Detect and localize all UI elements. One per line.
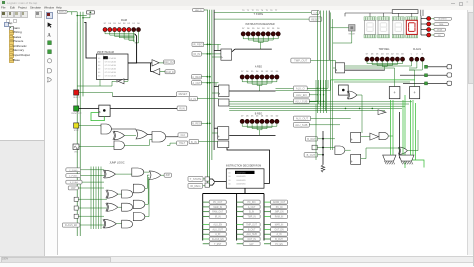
- svg-text:IR_REG: IR_REG: [190, 184, 200, 188]
- tunnel Z_FLAG: [66, 174, 104, 178]
- wire NOT connections: [77, 80, 128, 87]
- svg-text:D7: D7: [104, 23, 106, 25]
- TMP bit labels: [366, 53, 404, 55]
- tunnel ALU_SUB: [293, 99, 316, 104]
- tunnel PC_INC G2: [237, 200, 261, 204]
- tunnel MODE2: [431, 28, 446, 31]
- svg-text:D1: D1: [132, 23, 134, 25]
- AND gate clk C: [114, 140, 152, 150]
- tunnel ADDR_OUT G3: [264, 200, 288, 204]
- XOR gate J3: [106, 203, 122, 211]
- svg-text:D2: D2: [391, 53, 393, 55]
- adder box 1: [389, 87, 400, 99]
- tunnel ADDRESS: [431, 17, 452, 20]
- svg-text:D7: D7: [241, 116, 243, 118]
- label RAM: [121, 18, 128, 22]
- tunnel IR_IN: [192, 52, 221, 56]
- svg-text:FLAGS_EN: FLAGS_EN: [65, 224, 78, 227]
- svg-text:CLK: CLK: [181, 134, 186, 137]
- wire lr greens: [316, 95, 418, 160]
- svg-text:D7: D7: [241, 71, 243, 73]
- tunnel S_FLAG: [66, 180, 104, 184]
- tunnel A_IN G3: [264, 232, 288, 236]
- svg-text:D5: D5: [251, 116, 253, 118]
- wire right trunk bundle: [317, 11, 330, 114]
- tunnel ALU_O: [293, 86, 316, 91]
- svg-text:T3: T3: [256, 10, 258, 12]
- svg-text:TMP_OUT: TMP_OUT: [294, 59, 308, 63]
- 7seg display 2: [378, 13, 390, 38]
- OR gate jump out: [149, 171, 164, 180]
- label T STATE row: [242, 10, 277, 16]
- svg-text:INSTRUCTION DECODER ROM: INSTRUCTION DECODER ROM: [226, 164, 261, 167]
- A REG LEDs: [240, 75, 279, 79]
- wire reset row: [79, 93, 177, 97]
- XOR gate J1: [103, 170, 131, 178]
- wire FLAGS legs: [409, 61, 422, 70]
- tunnel PC_OUT G1: [203, 200, 227, 204]
- tunnel DATA: [431, 23, 449, 26]
- svg-text:0000E08D: 0000E08D: [236, 173, 246, 175]
- tunnel B_IN: [189, 139, 218, 143]
- wire A LED legs: [229, 79, 277, 91]
- svg-text:PC_INC: PC_INC: [248, 202, 257, 204]
- svg-text:T_STATE: T_STATE: [190, 177, 202, 181]
- tunnel HLT G2: [237, 242, 261, 246]
- svg-text:JMP: JMP: [71, 188, 76, 190]
- splitter joiner: [205, 177, 226, 187]
- wire B bus down: [227, 148, 270, 184]
- output pin 3: [403, 81, 452, 85]
- svg-text:D2: D2: [267, 28, 269, 30]
- wire IR LED legs: [232, 36, 279, 52]
- svg-text:D5: D5: [251, 71, 253, 73]
- tunnel B_REG: [192, 121, 208, 125]
- svg-text:RAM: RAM: [121, 18, 128, 22]
- svg-text:D1: D1: [396, 53, 398, 55]
- svg-text:D4: D4: [257, 28, 259, 30]
- svg-text:HALT: HALT: [179, 142, 186, 145]
- svg-text:D3: D3: [386, 53, 388, 55]
- AND gate JR1: [132, 168, 150, 176]
- scrollbars: [467, 10, 474, 256]
- tunnel FLAGS_EN G1: [203, 237, 227, 241]
- output pin 2: [400, 73, 452, 77]
- tunnel HALT: [167, 141, 188, 145]
- probe component top: [87, 11, 95, 14]
- svg-text:A REG: A REG: [255, 66, 262, 69]
- comparator box: [339, 85, 349, 95]
- svg-text:B_OUT: B_OUT: [248, 229, 256, 231]
- tunnel A_IN: [189, 96, 218, 100]
- AND gate clk A: [101, 124, 136, 134]
- svg-text:D4: D4: [256, 116, 258, 118]
- svg-text:MODE: MODE: [349, 33, 356, 35]
- svg-text:T4: T4: [261, 10, 263, 12]
- FLAGS bit labels: [411, 53, 424, 55]
- svg-text:T7: T7: [275, 10, 277, 12]
- svg-text:D6: D6: [247, 28, 249, 30]
- svg-text:0000E08D: 0000E08D: [236, 176, 246, 178]
- svg-text:C: C: [411, 53, 413, 55]
- tunnel C_FLAG: [66, 168, 104, 172]
- A REG bit labels: [241, 71, 278, 73]
- pin J3: [74, 214, 104, 218]
- tunnel MDDR_A: [58, 10, 68, 13]
- svg-text:D3: D3: [123, 23, 125, 25]
- wire mode: [331, 28, 352, 43]
- svg-text:S: S: [422, 53, 424, 55]
- mux splitter 2: [399, 155, 414, 164]
- tunnel IR_REG: [192, 42, 221, 50]
- svg-text:D6: D6: [109, 23, 111, 25]
- svg-text:OUT_IN: OUT_IN: [248, 239, 257, 241]
- svg-text:D5: D5: [376, 53, 378, 55]
- tool strip: [45, 10, 58, 256]
- svg-text:IR_IN: IR_IN: [215, 217, 221, 219]
- tunnel T_STATE: [188, 177, 205, 182]
- svg-text:D1: D1: [272, 28, 274, 30]
- 7seg display 4: [406, 13, 418, 38]
- svg-text:TMP REG: TMP REG: [379, 48, 390, 51]
- svg-text:RESET: RESET: [73, 97, 80, 99]
- svg-text:JUMP LOGIC: JUMP LOGIC: [109, 162, 124, 165]
- buffer RAM in: [153, 69, 165, 75]
- wire step row: [79, 126, 101, 127]
- AND gate lr2: [379, 132, 393, 139]
- svg-text:D6: D6: [246, 116, 248, 118]
- B REG LEDs: [240, 119, 279, 123]
- svg-text:256 BYTE RAM: 256 BYTE RAM: [97, 51, 114, 54]
- tunnel A_OUT G2: [237, 205, 261, 209]
- svg-text:B_OUT: B_OUT: [275, 239, 283, 241]
- label JUMP LOGIC: [109, 162, 124, 165]
- tunnel ALU_SUB2: [293, 123, 340, 128]
- svg-text:D0: D0: [401, 53, 403, 55]
- svg-text:D4: D4: [256, 71, 258, 73]
- label B REG: [255, 112, 263, 115]
- tunnel A_REG: [192, 75, 208, 79]
- tunnel MAR_IN top: [193, 9, 208, 12]
- tunnel RESET right: [214, 17, 322, 21]
- wire right trunk verticals: [331, 12, 333, 150]
- svg-text:T0: T0: [242, 10, 244, 12]
- tunnel TMP_IN G2: [237, 215, 261, 219]
- label FLAGS: [413, 48, 421, 51]
- svg-text:MODE: MODE: [437, 29, 443, 31]
- FLAGS LEDs: [410, 57, 425, 61]
- svg-text:D1: D1: [271, 71, 273, 73]
- svg-text:D5: D5: [113, 23, 115, 25]
- resistor zigzag: [321, 165, 325, 172]
- svg-text:D0: D0: [137, 23, 139, 25]
- button RESET: [73, 90, 80, 99]
- AND gate JR3: [133, 178, 149, 209]
- svg-text:TMP_IN: TMP_IN: [248, 217, 257, 219]
- tunnel ALU_OUT: [293, 116, 350, 121]
- svg-text:D0: D0: [276, 116, 278, 118]
- register lr1: [351, 132, 370, 142]
- svg-text:D2: D2: [266, 71, 268, 73]
- button RUN/STOP: [71, 106, 82, 115]
- svg-text:D5: D5: [252, 28, 254, 30]
- wire from MDDR_A: [67, 12, 77, 22]
- register TMP: [333, 63, 345, 73]
- svg-text:PC_OUT: PC_OUT: [213, 202, 223, 204]
- RAM LEDs D7-D0: [103, 28, 141, 32]
- wire osc row: [79, 146, 114, 147]
- svg-text:B_IN: B_IN: [249, 212, 254, 214]
- svg-text:STEP: STEP: [74, 130, 80, 132]
- tunnel FLAGS_EN: [62, 223, 104, 227]
- B REG bit labels: [241, 116, 278, 118]
- mux splitter 1: [383, 155, 396, 164]
- svg-text:D7: D7: [366, 53, 368, 55]
- tunnel B_OUT2: [304, 153, 324, 157]
- label A REG: [255, 66, 262, 69]
- 7seg display 3: [392, 13, 404, 38]
- wire trunk left verticals: [77, 12, 83, 236]
- label TMP REG: [379, 48, 390, 51]
- TMP REG LEDs: [365, 57, 405, 61]
- wire B LED legs: [229, 124, 277, 136]
- register lr2: [351, 154, 366, 164]
- svg-text:T STATE: T STATE: [254, 13, 264, 16]
- MODE pin: [349, 25, 356, 36]
- RAM box: [97, 54, 129, 80]
- svg-text:D3: D3: [261, 116, 263, 118]
- svg-text:B REG: B REG: [255, 112, 263, 115]
- tunnel B_OUT: [305, 137, 335, 141]
- register B: [212, 127, 229, 148]
- tunnel A_IN G1: [203, 232, 227, 236]
- tunnel CLK: [178, 133, 188, 137]
- wire black top elbow: [84, 22, 96, 58]
- wire ROM output bus: [203, 188, 264, 240]
- svg-text:D6: D6: [371, 53, 373, 55]
- wire AB to ALU bundle: [229, 80, 412, 111]
- tunnel A_OUT: [192, 81, 219, 86]
- svg-text:D4: D4: [118, 23, 120, 25]
- tunnel IR_IN G1: [203, 215, 227, 219]
- AND gate JM4: [122, 220, 133, 228]
- label 256 BYTE RAM: [97, 51, 114, 54]
- svg-text:T6: T6: [270, 10, 272, 12]
- output pin 1: [425, 65, 452, 69]
- svg-text:0000E08D: 0000E08D: [236, 183, 246, 185]
- wire RAM ports: [128, 63, 153, 72]
- pin J2: [74, 206, 107, 210]
- svg-text:A_OUT: A_OUT: [193, 82, 202, 85]
- svg-text:D6: D6: [246, 71, 248, 73]
- svg-text:D2: D2: [266, 116, 268, 118]
- tunnel OUT_IN G2: [237, 237, 261, 241]
- tunnel CLK right: [214, 11, 319, 15]
- junction dots middle trunk: [207, 44, 211, 125]
- wire RAM LED legs: [105, 32, 139, 63]
- buffer lr: [370, 133, 379, 140]
- tunnel B_OUT G3: [264, 237, 288, 241]
- NOT gate below RAM: [116, 79, 124, 84]
- adder box 2: [410, 87, 420, 99]
- svg-text:T_RST: T_RST: [214, 244, 222, 246]
- explorer panel: [0, 10, 45, 256]
- tunnel ALU_OUT G1: [203, 227, 227, 231]
- svg-text:T5: T5: [266, 10, 268, 12]
- tunnel RAM_IN: [165, 70, 175, 74]
- tunnel OUT_EN G3: [264, 227, 288, 231]
- XOR gate clk B: [113, 131, 136, 140]
- svg-text:0000E08D: 0000E08D: [236, 180, 246, 182]
- svg-text:PC_IN: PC_IN: [276, 207, 283, 209]
- svg-text:T2: T2: [251, 10, 253, 12]
- XOR gate J2: [106, 190, 122, 198]
- AND gate clk E: [152, 132, 178, 143]
- tunnel B_OUT G2: [237, 227, 261, 231]
- OR gate clk D: [136, 130, 152, 139]
- flipflop clock box: [99, 105, 110, 116]
- tunnel ALU_EN: [293, 93, 316, 98]
- register A: [212, 85, 229, 106]
- wire display top bus: [345, 10, 423, 19]
- svg-text:OUT_EN: OUT_EN: [274, 229, 284, 231]
- tunnel PC_EN G3: [264, 242, 288, 246]
- 7seg display 1: [364, 13, 376, 38]
- svg-text:D0: D0: [277, 28, 279, 30]
- AND gate JR2: [133, 175, 149, 193]
- wire jump bus verticals: [91, 167, 101, 230]
- svg-text:OSC: OSC: [74, 151, 79, 153]
- tunnel RAM_OUT G1: [203, 210, 227, 214]
- output LED column: [421, 17, 431, 38]
- svg-text:JMP: JMP: [165, 174, 170, 177]
- menu bar: [0, 6, 474, 10]
- svg-text:RUN/STOP: RUN/STOP: [71, 113, 82, 115]
- label INSTRUCTION DECODER ROM: [226, 164, 261, 167]
- svg-text:HLT: HLT: [250, 244, 255, 246]
- wire TMP legs: [345, 61, 403, 70]
- tunnel JMP out: [164, 173, 171, 177]
- tunnel JMP_EN G3: [264, 210, 288, 214]
- wire top stubs: [76, 12, 90, 19]
- svg-text:PC_EN: PC_EN: [275, 244, 283, 246]
- tunnel RESET: [177, 92, 190, 97]
- wire pullup black vertical: [322, 131, 324, 165]
- svg-text:D2: D2: [128, 23, 130, 25]
- tunnel TMP_OUT G2: [237, 223, 261, 227]
- buffer RAM out: [152, 60, 164, 66]
- label INSTRUCTION REGISTER: [245, 23, 274, 26]
- register IR: [212, 49, 232, 60]
- svg-text:D3: D3: [261, 71, 263, 73]
- svg-text:INSTRUCTION REGISTER: INSTRUCTION REGISTER: [245, 23, 274, 26]
- tunnel RAM_OUT: [163, 60, 175, 64]
- wire run row: [79, 107, 177, 109]
- tunnel ALU_EN G1: [203, 223, 227, 227]
- RAM data bit labels: [104, 23, 140, 25]
- tunnel TMP_OUT: [291, 58, 336, 63]
- svg-text:D7: D7: [242, 28, 244, 30]
- AND gate JM3: [122, 203, 133, 211]
- tunnel SIG: [431, 34, 445, 37]
- tunnel ALU_SUB G2: [237, 232, 261, 236]
- schematic canvas: [58, 10, 467, 256]
- svg-text:JMP_EN: JMP_EN: [275, 212, 284, 214]
- svg-text:D3: D3: [262, 28, 264, 30]
- AND gate JR4: [133, 179, 149, 221]
- pin J1: [74, 197, 107, 201]
- svg-text:D4: D4: [381, 53, 383, 55]
- XOR gate alu: [347, 91, 362, 99]
- AND gate JM2: [122, 190, 133, 198]
- button STEP: [74, 123, 80, 132]
- title bar: [0, 0, 474, 7]
- wire alu maze: [345, 66, 424, 168]
- wire clock feedback loop: [91, 113, 104, 121]
- tunnel MAR_IN G1: [203, 205, 227, 209]
- tunnel RUN: [177, 106, 187, 110]
- tunnel MAR_IN G3: [264, 223, 288, 227]
- tunnel B_IN G2: [237, 210, 261, 214]
- XNOR gate lr: [398, 147, 407, 154]
- ROM box: [226, 169, 264, 188]
- tunnel JMP_EN: [68, 186, 104, 190]
- svg-text:T1: T1: [247, 10, 249, 12]
- tunnel PC_IN G3: [264, 205, 288, 209]
- svg-text:D0: D0: [276, 71, 278, 73]
- svg-text:TMP_OUT: TMP_OUT: [246, 225, 257, 227]
- AND gate lr: [335, 146, 351, 154]
- oscillator OSC: [73, 144, 79, 153]
- svg-text:D1: D1: [271, 116, 273, 118]
- pin small right: [312, 145, 335, 150]
- tunnel RAM_IN G3: [264, 215, 288, 219]
- svg-text:FLAGS: FLAGS: [413, 48, 421, 51]
- IR LEDs: [241, 32, 280, 36]
- tunnel T_RST G1: [203, 242, 227, 246]
- IR bit labels: [242, 28, 279, 30]
- wire alu bright h: [331, 80, 416, 82]
- XOR gate J4: [103, 219, 122, 228]
- wire trunk middle verticals: [208, 10, 215, 187]
- svg-text:Z: Z: [416, 53, 418, 55]
- tunnel IR_REG2: [188, 183, 205, 188]
- attribute pane: [0, 140, 45, 257]
